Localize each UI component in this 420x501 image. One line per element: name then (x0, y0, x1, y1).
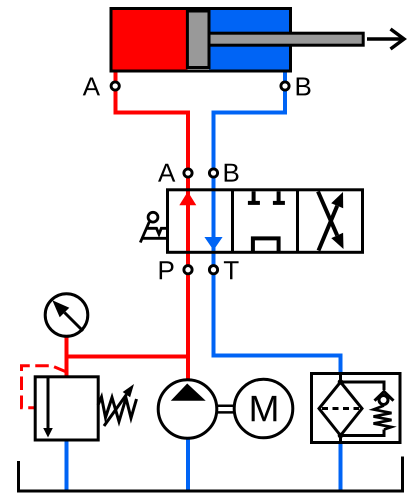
filter diamond (319, 382, 362, 436)
check valve spring (374, 406, 392, 430)
valve right cell crossed arrow 2 (up-right) (319, 192, 344, 251)
label T (valve) (224, 261, 239, 279)
port A circle (cylinder) (111, 82, 119, 90)
check valve seat (375, 392, 394, 401)
junction node top (338, 379, 344, 385)
label A (valve) (158, 164, 175, 182)
pilot line dashed red to relief valve (22, 366, 67, 408)
cylinder C1 piston (187, 11, 209, 68)
valve middle cell blocked port T symbol left (248, 191, 260, 203)
tank (19, 457, 403, 492)
cylinder C1 body outline (111, 9, 291, 72)
motion arrow (367, 29, 404, 49)
label B (valve) (225, 164, 239, 182)
valve port B circle (209, 169, 217, 177)
valve port P circle (184, 266, 192, 274)
red flow arrow in valve left cell (179, 192, 196, 206)
cylinder C1 red chamber (113, 10, 188, 70)
motor M1 (234, 379, 293, 438)
wire red: cylinder port A to valve A through P down to pump (116, 71, 189, 380)
valve divider middle/right (296, 190, 299, 253)
port B circle (cylinder) (281, 82, 289, 90)
valve V1 body outline (168, 190, 363, 253)
label P (valve) (160, 261, 174, 279)
relief valve internal arrow (43, 378, 53, 438)
wire red: gauge down to relief valve top (65, 336, 69, 377)
junction node bottom (338, 433, 344, 439)
wire blue: pump to tank (186, 438, 190, 491)
valve divider left/middle (231, 190, 234, 253)
relief valve spring (98, 397, 137, 422)
wire red: horizontal manifold gauge to pump riser (67, 355, 189, 359)
valve port A circle (184, 169, 192, 177)
bypass branch lower wire (341, 430, 385, 436)
wire blue: relief valve to tank (65, 440, 69, 491)
valve port T circle (209, 266, 217, 274)
valve middle cell blocked port T symbol right (273, 191, 285, 203)
filter outlet stub (339, 436, 342, 443)
coupling pump-motor (217, 406, 234, 413)
label B (cylinder) (297, 78, 311, 96)
pressure gauge (45, 294, 88, 337)
filter assembly box (312, 374, 401, 443)
lever operator (manual with detent) (140, 212, 167, 242)
cylinder C1 blue chamber (209, 10, 289, 70)
bypass check valve branch wire (341, 382, 385, 390)
valve middle cell bridge P-T (253, 238, 279, 251)
filter inlet stub (339, 374, 342, 383)
filter element dashed line (322, 407, 359, 410)
pump P1 (158, 380, 217, 439)
check valve ball (379, 396, 388, 405)
relief valve body (35, 377, 98, 440)
cylinder C1 rod (209, 33, 363, 45)
relief valve adjustment arrow (104, 384, 134, 426)
wire blue: cylinder port B to valve B through T to filter (214, 71, 341, 374)
label A (cylinder) (83, 78, 100, 96)
valve right cell crossed arrow 1 (down-right) (318, 192, 344, 250)
wire blue: filter to tank (339, 443, 343, 491)
blue flow arrow in valve left cell (204, 237, 222, 250)
